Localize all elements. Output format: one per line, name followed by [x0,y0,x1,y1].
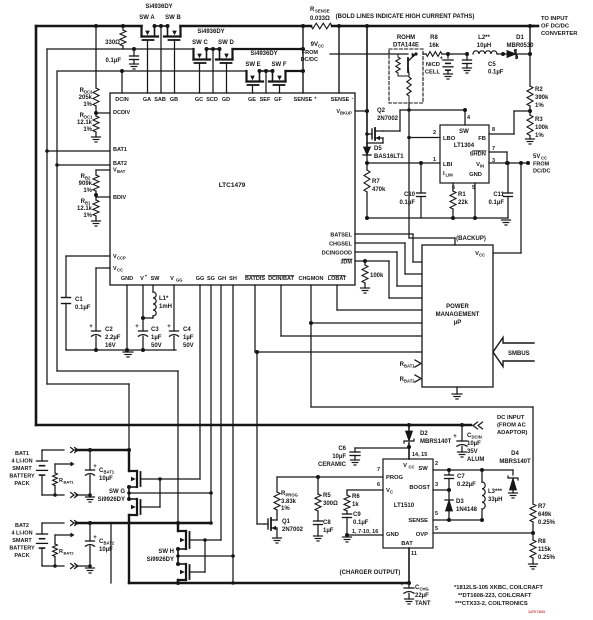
svg-text:649k: 649k [538,512,552,518]
svg-text:C8: C8 [323,520,331,526]
svg-text:50V: 50V [183,343,194,349]
svg-text:+: + [400,582,404,588]
svg-text:**DT1608-223, COILCRAFT: **DT1608-223, COILCRAFT [458,593,532,599]
svg-text:33µH: 33µH [488,497,502,503]
svg-text:PACK: PACK [14,481,29,487]
svg-text:LBI: LBI [443,162,453,168]
svg-text:DCIN/BAT: DCIN/BAT [268,276,295,282]
svg-text:MBRS140T: MBRS140T [420,439,452,445]
svg-text:4 LI-ION: 4 LI-ION [11,531,32,537]
svg-text:1µF: 1µF [183,335,194,341]
svg-text:SW B: SW B [165,15,181,21]
svg-text:SW E: SW E [245,62,260,68]
svg-text:SW G: SW G [109,489,125,495]
svg-text:BAT1: BAT1 [113,147,127,153]
svg-text:C9: C9 [353,512,361,518]
svg-text:L2**: L2** [478,35,490,41]
svg-text:300Ω: 300Ω [323,501,338,507]
svg-text:MBRS140T: MBRS140T [499,459,531,465]
svg-text:R8: R8 [538,539,546,545]
svg-text:+: + [167,324,171,330]
svg-text:ADAPTOR): ADAPTOR) [497,430,528,436]
svg-text:BDIV: BDIV [113,195,126,201]
svg-text:BAT1: BAT1 [64,480,75,485]
svg-text:12.1k: 12.1k [77,120,93,126]
svg-text:0.1µF: 0.1µF [106,58,122,64]
svg-text:FROM: FROM [533,162,550,168]
svg-text:(CHARGER OUTPUT): (CHARGER OUTPUT) [340,570,401,576]
svg-text:ALUM: ALUM [467,457,484,463]
svg-text:BATSEL: BATSEL [330,233,352,239]
svg-text:TO INPUT: TO INPUT [541,16,568,22]
svg-text:DC2: DC2 [84,90,93,95]
svg-text:D4: D4 [511,451,519,457]
svg-text:0.25%: 0.25% [538,555,556,561]
svg-text:R: R [59,549,63,555]
svg-text:7: 7 [377,467,380,473]
svg-text:2.2µF: 2.2µF [105,335,121,341]
svg-text:L1*: L1* [159,296,169,302]
svg-text:TANT: TANT [415,601,431,607]
svg-text:SEF: SEF [260,97,271,103]
svg-text:470k: 470k [372,187,386,193]
svg-text:CC: CC [409,465,415,470]
svg-text:5: 5 [435,526,438,532]
svg-text:SHDN: SHDN [470,152,486,158]
svg-text:CC: CC [117,268,123,273]
svg-text:C3: C3 [151,327,159,333]
svg-text:1%: 1% [83,213,92,219]
svg-text:CC: CC [541,156,547,161]
svg-text:SW D: SW D [218,40,234,46]
svg-text:7: 7 [492,146,495,152]
svg-text:BAT2: BAT2 [64,551,75,556]
svg-text:Si9926DY: Si9926DY [147,557,174,563]
svg-text:+: + [93,535,97,541]
svg-text:1: 1 [433,157,436,163]
svg-text:D1: D1 [516,35,524,41]
svg-text:DCINGOOD: DCINGOOD [322,251,352,257]
svg-text:R7: R7 [538,504,546,510]
svg-text:35V: 35V [467,449,478,455]
svg-text:BAT2: BAT2 [113,161,127,167]
svg-text:SCD: SCD [206,97,218,103]
svg-text:LT1304: LT1304 [454,143,475,149]
svg-text:4 LI-ION: 4 LI-ION [11,459,32,465]
svg-text:SAB: SAB [154,97,166,103]
svg-text:1µF: 1µF [151,335,162,341]
svg-text:C1: C1 [75,297,83,303]
svg-text:LBO: LBO [443,136,456,142]
svg-text:CCP: CCP [117,256,126,261]
svg-text:FROM: FROM [302,50,319,56]
svg-text:0.1µF: 0.1µF [75,305,91,311]
svg-text:MANAGEMENT: MANAGEMENT [436,312,480,318]
svg-text:BAT2: BAT2 [15,523,29,529]
svg-text:D3: D3 [456,499,464,505]
svg-text:DTA144E: DTA144E [393,43,419,49]
svg-text:SW H: SW H [158,549,174,555]
svg-text:3.83k: 3.83k [281,499,297,505]
svg-text:DC/DC: DC/DC [301,57,318,63]
svg-text:DCDIV: DCDIV [113,110,130,116]
svg-text:BOOST: BOOST [409,485,430,491]
svg-text:BAT: BAT [401,541,413,547]
svg-text:50V: 50V [151,343,162,349]
svg-text:SENSE: SENSE [408,518,428,524]
svg-text:0.1µF: 0.1µF [489,200,505,206]
svg-text:C7: C7 [457,474,465,480]
svg-text:R3: R3 [535,117,543,123]
svg-text:330Ω: 330Ω [105,40,120,46]
svg-text:+: + [89,324,93,330]
svg-text:GE: GE [248,97,256,103]
svg-text:BATTERY: BATTERY [9,546,35,552]
svg-text:SMART: SMART [12,538,32,544]
svg-text:0.22µF: 0.22µF [457,482,476,488]
svg-text:205k: 205k [79,95,93,101]
svg-text:(FROM AC: (FROM AC [497,423,527,429]
svg-text:Si9926DY: Si9926DY [98,497,125,503]
svg-text:8: 8 [492,127,495,133]
svg-text:22µF: 22µF [415,593,429,599]
svg-text:GH: GH [218,276,226,282]
svg-text:C2: C2 [105,327,113,333]
svg-text:CELL: CELL [425,70,441,76]
svg-text:-: - [352,95,354,101]
svg-text:SW: SW [459,129,469,135]
svg-text:CHGMON: CHGMON [298,276,323,282]
svg-text:SW C: SW C [192,40,208,46]
svg-text:BATTERY: BATTERY [9,474,35,480]
svg-text:16k: 16k [429,43,440,49]
svg-text:C6: C6 [338,446,346,452]
svg-text:BAT1: BAT1 [15,451,29,457]
svg-text:1%: 1% [83,127,92,133]
svg-text:1k: 1k [352,502,359,508]
svg-text:SMBUS: SMBUS [508,351,530,357]
svg-text:SENSE: SENSE [294,97,313,103]
svg-text:Si4936DY: Si4936DY [145,4,172,10]
svg-text:R2: R2 [535,87,543,93]
svg-text:1%: 1% [83,102,92,108]
svg-text:CONVERTER: CONVERTER [541,31,578,37]
svg-text:BAT2: BAT2 [104,541,115,546]
svg-text:D2: D2 [420,431,428,437]
svg-text:5: 5 [435,511,438,517]
svg-text:R7: R7 [372,179,380,185]
svg-text:2: 2 [433,130,436,136]
svg-text:R1: R1 [458,192,466,198]
svg-text:GC: GC [195,97,203,103]
svg-text:SW: SW [151,276,161,282]
svg-text:CC: CC [479,253,485,258]
svg-text:DC INPUT: DC INPUT [497,415,525,421]
svg-text:µP: µP [454,320,461,326]
svg-text:B2: B2 [85,176,91,181]
svg-text:DC1: DC1 [84,115,93,120]
svg-text:10µF: 10µF [99,476,113,482]
svg-text:DCIN: DCIN [115,97,128,103]
svg-text:0.033Ω: 0.033Ω [310,16,330,22]
svg-text:12.1k: 12.1k [77,206,93,212]
svg-text:CHGSEL: CHGSEL [329,242,353,248]
svg-text:C10: C10 [404,192,416,198]
svg-text:***CTX33-2, COILTRONICS: ***CTX33-2, COILTRONICS [455,601,528,607]
svg-text:LT1510: LT1510 [394,503,415,509]
svg-text:B1: B1 [85,201,91,206]
svg-text:BAS16LT1: BAS16LT1 [374,154,404,160]
svg-text:*1812LS-105 XKBC, COILCRAFT: *1812LS-105 XKBC, COILCRAFT [454,585,543,591]
svg-text:1, 7-10, 16: 1, 7-10, 16 [352,529,378,535]
svg-text:R8: R8 [430,35,438,41]
svg-text:GG: GG [196,276,205,282]
svg-text:OF DC/DC: OF DC/DC [541,24,570,30]
svg-text:11: 11 [411,551,417,557]
svg-text:R6: R6 [352,494,360,500]
svg-text:10µF: 10µF [332,454,346,460]
svg-text:BAT2: BAT2 [404,379,415,384]
svg-text:C5: C5 [488,62,496,68]
svg-text:BKUP: BKUP [340,111,352,116]
svg-text:1N4148: 1N4148 [456,507,478,513]
svg-text:GA: GA [143,97,151,103]
svg-text:0.1µF: 0.1µF [488,70,504,76]
svg-text:115k: 115k [538,547,552,553]
svg-text:GND: GND [121,276,133,282]
svg-text:100k: 100k [535,125,549,131]
svg-text:22k: 22k [458,200,469,206]
svg-text:NiCD: NiCD [426,62,440,68]
svg-text:+: + [145,274,148,279]
svg-text:10µH: 10µH [477,43,491,49]
svg-text:DCIN: DCIN [472,435,482,440]
svg-text:Si4936DY: Si4936DY [250,51,277,57]
svg-text:BAT1: BAT1 [404,364,415,369]
svg-text:V: V [170,276,174,282]
svg-text:GB: GB [170,97,178,103]
svg-text:POWER: POWER [446,304,469,310]
svg-text:ROHM: ROHM [397,35,415,41]
svg-text:10µF: 10µF [467,441,481,447]
svg-text:1%: 1% [83,188,92,194]
svg-text:GND: GND [469,172,482,178]
svg-text:1%: 1% [535,103,544,109]
svg-text:Si4936DY: Si4936DY [197,29,224,35]
svg-text:(BOLD LINES INDICATE HIGH CURR: (BOLD LINES INDICATE HIGH CURRENT PATHS) [336,14,475,20]
svg-text:390k: 390k [535,95,549,101]
svg-text:+: + [453,434,457,440]
svg-text:0.1µF: 0.1µF [353,520,369,526]
svg-text:SMART: SMART [12,466,32,472]
svg-text:SENSE: SENSE [331,97,350,103]
svg-text:SG: SG [207,276,215,282]
svg-text:100k: 100k [370,273,384,279]
svg-text:LOBAT: LOBAT [328,276,347,282]
svg-text:SENSE: SENSE [315,9,330,14]
svg-text:GF: GF [274,97,282,103]
svg-text:R5: R5 [323,493,331,499]
svg-text:1479 TA03: 1479 TA03 [528,610,545,614]
svg-text:SW F: SW F [272,62,287,68]
svg-text:0.1µF: 0.1µF [400,200,416,206]
svg-text:1%: 1% [281,506,290,512]
svg-text:1%: 1% [535,133,544,139]
svg-text:V: V [403,463,407,469]
svg-text:5V: 5V [533,154,540,160]
svg-text:2: 2 [435,461,438,467]
svg-text:LIM: LIM [446,173,454,178]
svg-text:L3***: L3*** [488,489,503,495]
svg-text:BAT: BAT [117,169,126,174]
svg-text:GG: GG [176,278,183,283]
svg-text:C4: C4 [183,327,191,333]
svg-text:R: R [59,478,63,484]
svg-text:14, 15: 14, 15 [412,452,427,458]
svg-text:9V: 9V [311,42,318,48]
svg-text:SW A: SW A [139,15,155,21]
svg-text:C11: C11 [493,192,504,198]
svg-text:CHG: CHG [420,587,429,592]
svg-text:GND: GND [386,532,399,538]
svg-text:BATDIS: BATDIS [245,276,265,282]
svg-text:0.25%: 0.25% [538,520,556,526]
svg-text:3DM: 3DM [340,260,352,266]
svg-text:DC/DC: DC/DC [533,169,550,175]
svg-text:OVP: OVP [416,532,428,538]
svg-text:GD: GD [222,97,230,103]
svg-text:PACK: PACK [14,553,29,559]
svg-text:SW: SW [418,466,428,472]
svg-text:Q2: Q2 [377,108,386,114]
svg-text:6: 6 [377,482,380,488]
svg-text:+: + [439,56,443,62]
svg-text:BAT1: BAT1 [104,470,115,475]
svg-text:16V: 16V [105,343,116,349]
svg-text:V: V [140,276,144,282]
svg-text:D5: D5 [374,146,382,152]
svg-text:+: + [314,95,317,100]
svg-text:SH: SH [229,276,237,282]
svg-text:C: C [390,490,393,495]
svg-text:+: + [93,464,97,470]
svg-text:CC: CC [318,44,324,49]
svg-text:(BACKUP): (BACKUP) [456,236,486,242]
svg-text:3: 3 [435,482,438,488]
svg-text:1mH: 1mH [159,304,172,310]
svg-text:+: + [135,324,139,330]
svg-text:PROG: PROG [386,475,404,481]
svg-text:IN: IN [480,164,484,169]
svg-text:2N7002: 2N7002 [282,527,304,533]
svg-text:909k: 909k [79,181,93,187]
svg-text:1µF: 1µF [323,528,334,534]
svg-text:Q1: Q1 [282,519,291,525]
svg-text:LTC1479: LTC1479 [219,182,246,189]
svg-text:FB: FB [478,136,486,142]
svg-text:PROG: PROG [286,493,298,498]
svg-text:CERAMIC: CERAMIC [318,462,347,468]
svg-text:2N7002: 2N7002 [377,116,399,122]
